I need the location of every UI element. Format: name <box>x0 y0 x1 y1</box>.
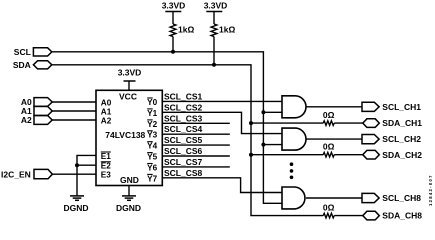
port I2C_EN <box>1 169 52 179</box>
resistor 0Ω (SDA_CH2) <box>323 142 335 157</box>
svg-text:1kΩ: 1kΩ <box>178 25 194 35</box>
svg-text:E1: E1 <box>101 152 111 161</box>
svg-text:SCL_CH2: SCL_CH2 <box>382 134 421 144</box>
wire R to SDA_CH2 port <box>334 154 363 156</box>
svg-text:Y0: Y0 <box>147 98 157 107</box>
svg-text:Y5: Y5 <box>147 153 157 162</box>
svg-text:VCC: VCC <box>119 92 137 102</box>
node SCL_CS3 stub <box>162 113 230 123</box>
node SCL_CS1 / wire Y0 to gate1 input A <box>162 91 282 101</box>
junction SCL bus / G1 <box>261 110 265 114</box>
svg-text:A2: A2 <box>21 115 32 125</box>
svg-text:Y3: Y3 <box>147 131 157 140</box>
svg-text:SDA_CH8: SDA_CH8 <box>382 211 422 221</box>
ellipsis (channels 3..7) <box>290 162 294 179</box>
svg-text:A2: A2 <box>101 117 112 126</box>
wire R2 to SDA <box>213 37 215 65</box>
svg-text:SCL_CH1: SCL_CH1 <box>382 102 421 112</box>
junction SDA bus / CH1 <box>249 121 253 125</box>
port A0 <box>21 97 52 107</box>
wire GND to ground <box>128 186 130 196</box>
wire A2 to IC <box>52 119 96 121</box>
svg-text:E2: E2 <box>101 162 111 171</box>
resistor 1kΩ (SDA pull-up) <box>211 24 235 37</box>
svg-text:SDA_CH1: SDA_CH1 <box>382 118 422 128</box>
port SDA_CH1 <box>363 118 422 128</box>
svg-text:SCL_CH8: SCL_CH8 <box>382 193 421 203</box>
wire A0 to IC <box>52 101 96 103</box>
wire G3 output <box>306 197 362 199</box>
port A1 <box>21 106 52 116</box>
wire R to SDA_CH1 port <box>334 122 363 124</box>
svg-text:1kΩ: 1kΩ <box>219 25 235 35</box>
port SCL_CH2 <box>362 134 421 144</box>
port SCL_CH8 <box>362 193 421 203</box>
port A2 <box>21 115 52 125</box>
svg-text:SDA_CH2: SDA_CH2 <box>382 150 422 160</box>
svg-text:SDA: SDA <box>13 60 31 70</box>
wire I2C_EN to E3 <box>52 173 96 175</box>
power 3.3VD (SCL pull-up rail) <box>162 0 186 24</box>
svg-text:Y6: Y6 <box>147 163 157 172</box>
node SCL_CS8 / wire Y7 to gate3 input A (jog) <box>162 168 282 193</box>
svg-text:3.3VD: 3.3VD <box>204 0 228 10</box>
and-gate G2 (SCL_CH2) <box>282 128 306 150</box>
wire E1 tie-down <box>77 155 96 195</box>
resistor 1kΩ (SCL pull-up) <box>170 24 194 37</box>
wire SCL bus to G1 input B <box>263 111 282 113</box>
wire SCL bus to G2 input B <box>263 144 282 146</box>
wire SDA bus to R 0Ω CH2 <box>251 154 323 156</box>
ground DGND (enable pins) <box>63 196 88 213</box>
port SCL_CH1 <box>362 102 421 112</box>
svg-text:SCL_CS7: SCL_CS7 <box>164 157 203 167</box>
port SDA <box>13 60 52 70</box>
wire SCL (horizontal + vertical bus + stub to gate3 input B) <box>52 52 282 204</box>
port SCL <box>14 47 52 57</box>
svg-text:3.3VD: 3.3VD <box>118 68 142 78</box>
svg-text:SCL_CS3: SCL_CS3 <box>164 113 203 123</box>
wire SDA bus to R 0Ω CH1 <box>251 122 323 124</box>
svg-text:DGND: DGND <box>116 203 141 213</box>
node SCL_CS5 stub <box>162 135 230 145</box>
power 3.3VD (IC VCC) <box>118 68 142 91</box>
node SCL_CS7 stub <box>162 157 230 167</box>
svg-text:I2C_EN: I2C_EN <box>1 169 31 179</box>
wire E2 tie-down <box>77 164 96 166</box>
and-gate G1 (SCL_CH1) <box>282 96 306 118</box>
port SDA_CH2 <box>363 150 422 160</box>
svg-text:SCL_CS6: SCL_CS6 <box>164 146 203 156</box>
svg-text:A0: A0 <box>101 99 112 108</box>
and-gate G3 (SCL_CH8) <box>282 187 305 209</box>
ground DGND (IC GND) <box>116 196 141 213</box>
svg-text:Y7: Y7 <box>147 174 157 183</box>
svg-text:E3: E3 <box>101 171 111 180</box>
svg-text:SCL_CS8: SCL_CS8 <box>164 168 203 178</box>
svg-text:74LVC138: 74LVC138 <box>105 130 145 140</box>
svg-text:3.3VD: 3.3VD <box>162 0 186 10</box>
svg-text:Y1: Y1 <box>147 109 157 118</box>
junction SDA bus / CH2 <box>249 153 253 157</box>
wire A1 to IC <box>52 110 96 112</box>
svg-text:SCL_CS2: SCL_CS2 <box>164 102 203 112</box>
node SCL_CS6 stub <box>162 146 230 156</box>
svg-text:Y4: Y4 <box>147 142 157 151</box>
svg-text:12842-007: 12842-007 <box>428 175 433 206</box>
wire R1 to SCL <box>172 37 174 52</box>
wire R to SDA_CH8 port <box>334 215 363 217</box>
svg-text:0Ω: 0Ω <box>323 203 335 213</box>
svg-text:GND: GND <box>120 175 139 185</box>
svg-text:SCL_CS1: SCL_CS1 <box>164 91 203 101</box>
power 3.3VD (SDA pull-up rail) <box>204 0 228 24</box>
resistor 0Ω (SDA_CH8) <box>323 203 335 218</box>
svg-text:SCL: SCL <box>14 47 31 57</box>
svg-text:0Ω: 0Ω <box>323 110 335 120</box>
svg-text:SCL_CS5: SCL_CS5 <box>164 135 203 145</box>
wire SDA (horizontal + vertical bus + bottom run to R 0Ω CH8) <box>52 65 323 216</box>
junction R2/SDA <box>212 63 216 67</box>
junction R1/SCL <box>171 50 175 54</box>
port SDA_CH8 <box>363 211 422 221</box>
wire G1 output <box>306 106 362 108</box>
svg-text:0Ω: 0Ω <box>323 142 335 152</box>
node SCL_CS2 / wire Y1 to gate2 input A (jog) <box>162 102 282 133</box>
junction E1/E2 <box>75 163 79 167</box>
IC U1 74LVC138 <box>96 90 162 185</box>
junction SCL bus / G2 <box>261 143 265 147</box>
svg-text:DGND: DGND <box>63 203 88 213</box>
node SCL_CS4 stub <box>162 124 230 134</box>
svg-text:A1: A1 <box>101 108 112 117</box>
wire G2 output <box>306 138 362 140</box>
resistor 0Ω (SDA_CH1) <box>323 110 335 125</box>
svg-text:Y2: Y2 <box>147 120 157 129</box>
svg-text:SCL_CS4: SCL_CS4 <box>164 124 203 134</box>
